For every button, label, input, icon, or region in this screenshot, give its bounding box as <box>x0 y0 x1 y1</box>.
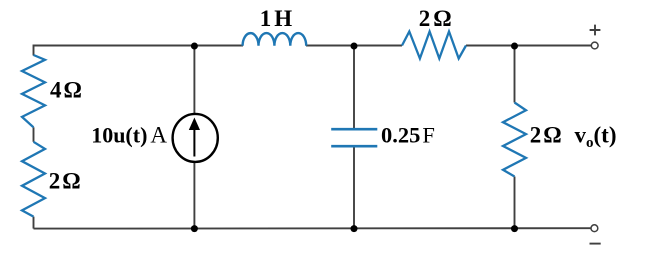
resistor R2 2ohm <box>22 142 45 217</box>
resistor R3 2ohm horizontal <box>402 32 466 59</box>
svg-text:vo(t): vo(t) <box>575 123 617 152</box>
wire top-left from corner to node A <box>34 46 195 56</box>
wire left bottom from resistor R2 to bottom rail <box>33 217 35 229</box>
current source I1 circle <box>173 114 218 162</box>
node F bottom of load <box>511 225 518 232</box>
wire from inductor to node B <box>306 45 402 47</box>
resistor R4 2ohm load <box>503 103 526 177</box>
wire bottom rail <box>34 227 592 229</box>
node E bottom of capacitor <box>351 225 358 232</box>
svg-text:1H: 1H <box>260 6 293 31</box>
svg-text:4Ω: 4Ω <box>50 77 82 102</box>
svg-text:0.25F: 0.25F <box>381 123 435 148</box>
wire left side between resistors R1 and R2 <box>33 127 35 142</box>
node D bottom of source <box>191 225 198 232</box>
wire current source top <box>193 46 195 114</box>
svg-text:2Ω: 2Ω <box>419 6 452 31</box>
node A top of source <box>191 43 198 50</box>
node B top of capacitor <box>351 43 358 50</box>
wire top from node A to inductor <box>194 45 243 47</box>
wire from resistor R3 to node C and terminal <box>466 45 591 47</box>
wire load resistor top <box>514 46 516 103</box>
wire current source bottom <box>193 162 195 229</box>
current source I1 arrow <box>193 127 195 157</box>
terminal positive <box>591 42 598 49</box>
minus sign <box>590 243 601 245</box>
node C top of load <box>511 43 518 50</box>
svg-text:2Ω: 2Ω <box>49 169 81 194</box>
svg-text:2Ω: 2Ω <box>530 123 562 148</box>
resistor R1 4ohm <box>22 55 45 127</box>
wire capacitor top <box>353 46 355 128</box>
inductor L1 1H <box>243 33 307 46</box>
wire load resistor bottom <box>514 177 516 229</box>
capacitor C1 plates <box>331 128 377 131</box>
plus sign <box>590 25 601 36</box>
wire capacitor bottom <box>353 147 355 229</box>
svg-text:10u(t)A: 10u(t)A <box>91 122 167 147</box>
terminal negative <box>591 225 598 232</box>
